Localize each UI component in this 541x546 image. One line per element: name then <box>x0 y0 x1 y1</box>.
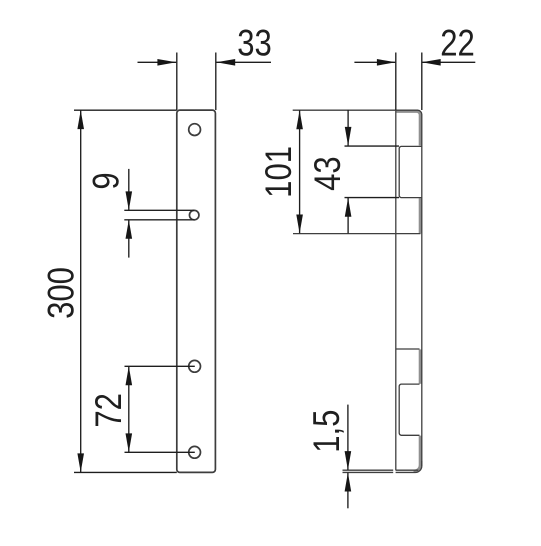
svg-text:33: 33 <box>237 23 272 64</box>
33 dim tails <box>138 61 177 63</box>
slot lines + 9-dim extension <box>124 210 194 220</box>
arrows 101 <box>296 110 303 129</box>
arrows 9 <box>126 191 133 210</box>
arrows 22 <box>377 59 396 66</box>
left edge full height <box>395 110 397 470</box>
hole 4 <box>189 446 201 458</box>
svg-text:22: 22 <box>440 23 475 64</box>
thin outline <box>293 110 422 472</box>
300 ext lines <box>74 109 177 111</box>
hole 1 <box>189 124 201 136</box>
22 ext lines <box>395 53 397 111</box>
43 ext lines <box>345 145 400 147</box>
arrows 72 <box>126 366 133 385</box>
arrows 1,5 <box>345 451 352 470</box>
43 dim line segments <box>347 110 349 146</box>
thick grey hook edges <box>396 111 420 471</box>
hole 3 <box>189 360 201 372</box>
arrows 43 <box>345 127 352 146</box>
hook3 top <box>396 348 420 350</box>
top edge + right edge thin dark <box>293 110 422 466</box>
101 dim line <box>299 110 301 233</box>
hook1 bottom <box>399 146 422 197</box>
plate outline <box>177 110 216 472</box>
svg-text:101: 101 <box>258 146 299 198</box>
22 dim tails <box>354 61 395 63</box>
300 dim line <box>80 110 82 472</box>
bottom surfaces + 1.5 ext <box>343 469 419 471</box>
9 dim line segments <box>128 169 130 210</box>
33 ext lines <box>176 53 178 111</box>
svg-text:43: 43 <box>308 156 349 191</box>
hook2 bottom + 101 ext <box>293 233 421 235</box>
svg-text:300: 300 <box>41 267 82 319</box>
slot end circle <box>189 210 199 220</box>
hook3 bottom, strip, step <box>399 384 419 435</box>
1,5 dim line segments <box>347 405 349 470</box>
arrows 300 <box>77 110 84 129</box>
72 ext lines <box>125 365 195 367</box>
svg-text:1,5: 1,5 <box>306 410 347 453</box>
72 dim line <box>128 366 130 452</box>
arrows 33 <box>157 59 176 66</box>
svg-text:9: 9 <box>86 172 127 189</box>
svg-text:72: 72 <box>89 393 130 428</box>
